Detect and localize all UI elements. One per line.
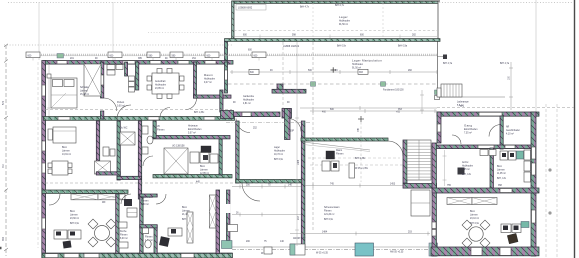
svg-text:1453: 1453 bbox=[390, 184, 396, 186]
hall top wall bbox=[232, 1, 438, 3]
door arcs gang bbox=[489, 125, 501, 137]
wall y190 left bbox=[42, 190, 128, 193]
svg-text:Büro: Büro bbox=[497, 165, 503, 168]
svg-text:Fliesen: Fliesen bbox=[141, 201, 149, 203]
label LGB bbox=[236, 5, 266, 11]
wall y224.7 bbox=[140, 225, 158, 228]
hall left wall bbox=[232, 1, 234, 40]
wall x139.7 bbox=[140, 194, 143, 254]
corridor dashed bbox=[45, 182, 300, 184]
dashed line in hall bbox=[234, 30, 437, 32]
svg-text:23,60 m²: 23,60 m² bbox=[70, 217, 79, 220]
left wall upper bbox=[437, 112, 441, 143]
chimney bbox=[349, 163, 355, 178]
dashed verticals right margin bbox=[545, 104, 547, 258]
svg-text:1488: 1488 bbox=[298, 159, 300, 165]
svg-text:W 05 +0,35: W 05 +0,35 bbox=[316, 253, 329, 255]
svg-text:Garderobe: Garderobe bbox=[243, 95, 255, 98]
WC fixtures bbox=[103, 147, 115, 156]
vertical dim x511 bbox=[509, 62, 513, 110]
svg-text:Kopierraum: Kopierraum bbox=[141, 196, 153, 199]
dotted boundary left y45 bbox=[4, 44, 232, 46]
svg-text:5,07 m²: 5,07 m² bbox=[188, 132, 196, 135]
hall lower-left wall bbox=[225, 41, 228, 62]
svg-text:BrH 0,9x: BrH 0,9x bbox=[70, 222, 80, 225]
faint posts bbox=[312, 3, 314, 39]
svg-text:4,81 m²: 4,81 m² bbox=[243, 102, 251, 105]
dashed horizontal right y107 bbox=[437, 107, 574, 109]
wall x138 bbox=[138, 121, 141, 199]
window boxes left wall bbox=[432, 222, 436, 236]
svg-text:AW 05 +0,35: AW 05 +0,35 bbox=[390, 251, 404, 254]
svg-text:121,20 m²: 121,20 m² bbox=[324, 213, 335, 216]
svg-text:LGB08 102/102: LGB08 102/102 bbox=[283, 46, 300, 48]
svg-text:BrH 0,9x: BrH 0,9x bbox=[337, 45, 347, 48]
svg-text:1484: 1484 bbox=[322, 232, 328, 234]
shelf column bbox=[524, 150, 531, 182]
ramp diagonals bbox=[303, 142, 370, 150]
barn left upper region dim dashed bbox=[360, 122, 362, 182]
svg-text:Lärmen: Lärmen bbox=[497, 169, 506, 172]
bottom wall right bbox=[431, 247, 539, 256]
svg-text:Holzboden: Holzboden bbox=[274, 151, 286, 153]
X closets under wall bbox=[71, 194, 125, 200]
hall right wall bbox=[437, 1, 439, 40]
right wall bbox=[531, 112, 536, 256]
round table office1 bbox=[88, 219, 116, 247]
wall x115.7 bbox=[116, 194, 119, 254]
svg-text:Holzboden: Holzboden bbox=[204, 79, 216, 81]
dark marker bbox=[443, 55, 447, 60]
svg-text:W 05 +1,35x: W 05 +1,35x bbox=[355, 168, 369, 170]
svg-text:Raum: Raum bbox=[336, 150, 342, 152]
svg-text:Holzboden: Holzboden bbox=[339, 21, 351, 23]
svg-text:13,91 m²: 13,91 m² bbox=[62, 153, 71, 156]
wall x154 bbox=[154, 225, 157, 254]
faint fold lines bbox=[38, 2, 40, 60]
wall y174.5 bbox=[153, 175, 232, 178]
dashed BrH line bbox=[45, 109, 232, 111]
svg-text:Büro: Büro bbox=[70, 210, 76, 213]
svg-text:Büro: Büro bbox=[470, 210, 476, 213]
svg-text:Büro: Büro bbox=[200, 165, 206, 168]
svg-text:4,10 m²: 4,10 m² bbox=[506, 133, 514, 136]
svg-text:1,50P: 1,50P bbox=[288, 131, 294, 133]
door arc Schlafen bbox=[104, 98, 117, 111]
svg-text:Fliesen: Fliesen bbox=[336, 154, 344, 156]
building bottom wall left bbox=[42, 253, 233, 258]
svg-text:BrH 1,35x: BrH 1,35x bbox=[194, 111, 205, 114]
svg-text:Raum: Raum bbox=[204, 73, 213, 77]
svg-text:Lager: Lager bbox=[274, 146, 280, 149]
door arcs garderobe bbox=[236, 119, 250, 133]
windows top wall bbox=[57, 61, 216, 64]
kitchen appliances mid bbox=[480, 150, 496, 156]
svg-text:Schlafen: Schlafen bbox=[80, 87, 90, 89]
round table right bbox=[462, 220, 490, 248]
inner dim chain near left wall bbox=[37, 62, 39, 248]
svg-text:Estrichboden: Estrichboden bbox=[188, 128, 202, 131]
svg-text:5,8 m²: 5,8 m² bbox=[457, 104, 464, 107]
left wall lower bbox=[432, 143, 436, 256]
Aufenthalt table bbox=[152, 73, 179, 94]
svg-text:Holzboden: Holzboden bbox=[155, 85, 167, 87]
svg-text:Lager: Lager bbox=[339, 15, 348, 19]
wall x117 bbox=[117, 121, 120, 180]
svg-text:91,50 m²: 91,50 m² bbox=[352, 67, 361, 70]
divider x490 bbox=[490, 148, 493, 189]
svg-text:9,47 m²: 9,47 m² bbox=[204, 81, 212, 84]
svg-text:Küche: Küche bbox=[120, 231, 127, 233]
toilet icons bbox=[142, 126, 153, 154]
hall divider wall bbox=[232, 35, 437, 39]
svg-text:BrH 4,7x: BrH 4,7x bbox=[300, 6, 310, 9]
sofa bbox=[53, 127, 76, 143]
Küche bbox=[124, 199, 132, 206]
wall under bedrooms y117.5 bbox=[44, 117, 235, 121]
dim line y233 bbox=[290, 232, 430, 236]
top dotted boundary bbox=[8, 2, 572, 4]
svg-text:Fliesen: Fliesen bbox=[157, 130, 165, 132]
dim marks y186 bbox=[232, 185, 301, 189]
svg-text:Lärmen: Lärmen bbox=[70, 214, 79, 217]
svg-text:91,50 m²: 91,50 m² bbox=[339, 23, 348, 26]
wall y188 bbox=[432, 188, 539, 193]
dining set bbox=[52, 161, 68, 175]
svg-text:BrH 1,35x: BrH 1,35x bbox=[355, 157, 366, 160]
svg-text:Laderampe: Laderampe bbox=[457, 101, 469, 104]
svg-text:11,95 m²: 11,95 m² bbox=[497, 172, 506, 175]
svg-text:BrH, 13x: BrH, 13x bbox=[462, 173, 472, 176]
svg-text:Fundament 100/100: Fundament 100/100 bbox=[383, 89, 404, 92]
top wall bbox=[437, 112, 539, 116]
dim line y185 bbox=[305, 184, 430, 188]
svg-text:AR: AR bbox=[506, 126, 510, 129]
svg-text:Heizraum: Heizraum bbox=[188, 125, 198, 128]
svg-text:BrH, 13x: BrH, 13x bbox=[497, 177, 507, 180]
building left wall bbox=[42, 61, 46, 258]
paper right edge line bbox=[574, 0, 576, 258]
wall x216 bbox=[216, 190, 220, 254]
staircase bbox=[407, 140, 431, 180]
flur furniture bbox=[107, 65, 123, 76]
svg-text:VK: VK bbox=[157, 126, 161, 128]
Garderobe walls bbox=[277, 84, 283, 93]
survey cross bbox=[358, 116, 364, 122]
nightstand bbox=[47, 74, 51, 78]
svg-text:AW 08 7x77: AW 08 7x77 bbox=[293, 237, 306, 240]
svg-text:Archiv: Archiv bbox=[462, 161, 469, 164]
wardrobe X Schlafen bbox=[84, 64, 101, 96]
svg-text:Lager Manipulation: Lager Manipulation bbox=[352, 59, 382, 63]
desk right bbox=[501, 224, 521, 233]
door arcs offices bbox=[49, 194, 60, 205]
svg-text:Lärmen: Lärmen bbox=[80, 90, 89, 93]
building top wall bbox=[44, 61, 234, 65]
svg-text:BrH 0,9a: BrH 0,9a bbox=[398, 45, 408, 48]
svg-text:Gang: Gang bbox=[464, 124, 472, 128]
svg-text:Lärmen: Lärmen bbox=[470, 214, 479, 217]
wall x96 bbox=[96, 121, 99, 172]
door arc bbox=[143, 156, 153, 166]
dashed vertical through halls bbox=[312, 42, 314, 232]
svg-text:Aufenthalt: Aufenthalt bbox=[155, 80, 166, 83]
dim line y72 bbox=[230, 70, 437, 74]
svg-text:Fliesen: Fliesen bbox=[120, 235, 128, 237]
svg-text:UG 138/158: UG 138/158 bbox=[172, 146, 185, 148]
svg-text:Holzboden: Holzboden bbox=[243, 100, 255, 102]
wall x403 bbox=[403, 140, 407, 183]
svg-text:Büro: Büro bbox=[182, 206, 188, 209]
door arcs corridor bbox=[242, 183, 260, 201]
svg-text:0,00 m²: 0,00 m² bbox=[117, 105, 125, 108]
top dim row boxes bbox=[30, 54, 437, 56]
Raum walls bbox=[194, 62, 197, 98]
svg-text:23,85 m²: 23,85 m² bbox=[155, 87, 164, 90]
shower X bbox=[120, 132, 135, 145]
svg-text:LGB6/8 66/92: LGB6/8 66/92 bbox=[238, 8, 253, 10]
svg-text:Estrichboden: Estrichboden bbox=[464, 128, 478, 131]
svg-text:23,10 m²: 23,10 m² bbox=[470, 217, 479, 220]
svg-text:7,35 m²: 7,35 m² bbox=[464, 132, 472, 135]
kitchen counters bbox=[190, 152, 218, 163]
office1 desks bbox=[54, 230, 81, 239]
svg-text:Scheunenraum: Scheunenraum bbox=[324, 206, 340, 209]
bottom-left paper line bbox=[0, 247, 2, 250]
shaft X bbox=[95, 161, 111, 174]
hall center dashed bbox=[228, 83, 438, 85]
big X closet kitchen bbox=[164, 148, 188, 174]
VK wall bbox=[153, 136, 230, 139]
svg-text:Podest: Podest bbox=[117, 101, 125, 104]
svg-text:Lärmen: Lärmen bbox=[200, 169, 209, 172]
svg-text:BrH 0,9x: BrH 0,9x bbox=[324, 218, 334, 221]
svg-text:BrH 0,9x: BrH 0,9x bbox=[274, 158, 284, 161]
AR divider bbox=[500, 116, 503, 149]
barn top wall bbox=[301, 138, 388, 141]
svg-text:Geschirrlader: Geschirrlader bbox=[506, 129, 520, 132]
bed bbox=[51, 78, 77, 108]
left dimension chain bbox=[5, 45, 7, 256]
svg-text:3,30 m²: 3,30 m² bbox=[141, 203, 149, 206]
door arc barn bbox=[388, 141, 403, 156]
Schlafen right wall bbox=[101, 62, 104, 98]
office2 cabinet bbox=[187, 212, 193, 243]
svg-text:Fliesen: Fliesen bbox=[324, 211, 332, 213]
wall y176.3 bbox=[117, 176, 142, 179]
svg-text:Lärmen: Lärmen bbox=[62, 150, 71, 153]
svg-text:WF: WF bbox=[102, 202, 106, 204]
svg-text:8,00 m²: 8,00 m² bbox=[120, 237, 128, 240]
svg-text:BrH 4,7a: BrH 4,7a bbox=[443, 62, 453, 65]
door arcs hallway bbox=[186, 99, 197, 110]
svg-text:Holzboden: Holzboden bbox=[462, 166, 474, 168]
svg-text:15,48 m²: 15,48 m² bbox=[80, 93, 89, 96]
X closets office right bbox=[447, 198, 497, 205]
svg-text:Fliesen: Fliesen bbox=[145, 237, 153, 239]
office2 furniture bbox=[159, 236, 170, 247]
small wall x135 bbox=[136, 62, 139, 90]
svg-text:10,72 m²: 10,72 m² bbox=[274, 153, 283, 156]
svg-text:Holzboden: Holzboden bbox=[352, 64, 364, 66]
dim line y111 bbox=[310, 109, 437, 113]
barn furniture bbox=[326, 151, 335, 159]
svg-text:Du.WC: Du.WC bbox=[120, 128, 128, 130]
svg-text:BrH 4,7a: BrH 4,7a bbox=[500, 62, 510, 65]
dashed mid barn bbox=[310, 164, 430, 166]
svg-text:7,95 m²: 7,95 m² bbox=[462, 168, 470, 171]
wall y145 bbox=[432, 145, 532, 149]
svg-text:Büro: Büro bbox=[62, 146, 68, 149]
windows bottom wall bbox=[45, 254, 194, 258]
Lager room walls bbox=[236, 121, 239, 183]
svg-text:BrH 0,7x: BrH 0,7x bbox=[335, 4, 345, 7]
windows left wall bbox=[42, 85, 45, 229]
wall x219 bbox=[219, 139, 222, 175]
wall y171.8 bbox=[96, 172, 120, 175]
